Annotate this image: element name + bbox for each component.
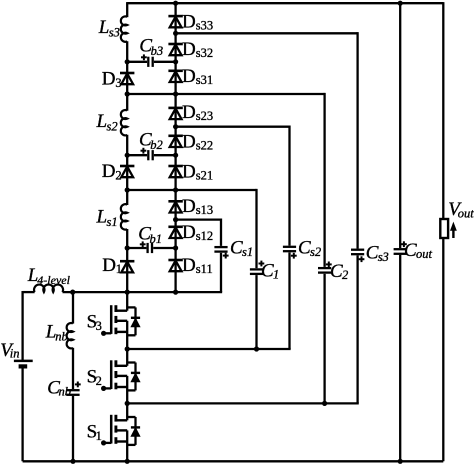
resistor Rload (output load)	[440, 219, 448, 238]
svg-text:nb: nb	[55, 330, 68, 344]
label C2	[330, 261, 348, 282]
label Cb2	[139, 129, 163, 152]
junction node Ds23-Ds22	[173, 124, 178, 129]
svg-text:s23: s23	[196, 109, 213, 123]
junction node Ds21 bottom	[173, 187, 178, 192]
capacitor C2	[317, 267, 332, 274]
polarity + of Cs2	[291, 253, 297, 259]
label Cb1	[138, 224, 162, 247]
svg-text:D: D	[182, 255, 196, 276]
svg-text:s1: s1	[107, 215, 118, 229]
svg-text:s12: s12	[196, 229, 213, 243]
svg-text:1: 1	[116, 262, 122, 276]
polarity + of Cb3	[141, 54, 147, 60]
wire Cb2 link	[127, 154, 175, 156]
label D2	[102, 161, 122, 183]
label D1	[102, 255, 122, 276]
wire S3 source row to Cs2 bottom	[127, 348, 290, 350]
junction node L4-level/Lnb	[70, 290, 75, 295]
svg-text:L: L	[96, 111, 108, 132]
svg-text:D: D	[182, 39, 196, 60]
junction node C1 bottom	[254, 346, 259, 351]
svg-text:1: 1	[96, 429, 102, 443]
junction node Ds11 bottom	[173, 290, 178, 295]
label Ds31	[182, 66, 213, 87]
label Cout	[404, 240, 433, 261]
polarity + of Cs1	[223, 253, 229, 259]
wire node Ds33/Ds32 to Cs3 top	[176, 32, 358, 403]
svg-text:s21: s21	[196, 169, 213, 183]
transistor S2 (MOSFET with body diode)	[101, 349, 140, 403]
diode Ds12	[168, 227, 182, 238]
junction node Ds31 bottom	[173, 91, 178, 96]
wire bottom return rail	[23, 460, 444, 462]
svg-text:2: 2	[115, 169, 121, 183]
junction node Cb2 right	[173, 153, 178, 158]
wire main node row: L4-level through buses to Cs1 bottom	[23, 291, 223, 293]
label Ds21	[182, 162, 213, 183]
capacitor Cb1	[146, 242, 153, 254]
wire Lnb-to-Cnb	[72, 348, 74, 391]
inductor Ls1	[121, 204, 127, 229]
junction node Cb1 left	[125, 245, 130, 250]
junction node D1/S3 drain	[125, 290, 130, 295]
svg-text:D: D	[102, 255, 116, 276]
label Cnb	[47, 377, 71, 398]
diode Ds33	[168, 16, 182, 27]
junction node D2 bottom	[125, 187, 130, 192]
label L4-level	[27, 265, 71, 287]
diode Ds13	[168, 201, 182, 212]
svg-text:L: L	[98, 17, 110, 38]
svg-text:b1: b1	[150, 232, 163, 246]
diode Ds23	[168, 108, 182, 119]
wire left bus Ls2-to-Ls1 segment (through Cb2 node and D2)	[126, 135, 128, 205]
junction node Cout bottom	[398, 459, 403, 464]
polarity + of C2	[326, 262, 332, 268]
capacitor Cout	[393, 248, 408, 255]
wire Cout branch	[399, 3, 401, 461]
arrow Vout direction	[450, 222, 457, 238]
diode Ds22	[168, 136, 182, 147]
svg-text:s13: s13	[196, 203, 213, 217]
svg-text:2: 2	[342, 268, 348, 282]
svg-text:D: D	[182, 131, 196, 152]
label Ds23	[182, 102, 213, 123]
junction node S1 source	[125, 459, 130, 464]
label Ds11	[182, 255, 213, 276]
inductor Ls2	[121, 110, 127, 135]
junction node top/Cout	[398, 1, 403, 6]
inductor Ls3	[121, 16, 127, 41]
label Cb3	[139, 36, 163, 59]
svg-text:in: in	[10, 347, 20, 361]
junction node S3 source	[125, 346, 130, 351]
wire Cnb-to-bottom	[72, 395, 74, 462]
svg-text:3: 3	[96, 319, 102, 333]
svg-text:4-level: 4-level	[37, 273, 70, 287]
svg-text:D: D	[182, 102, 196, 123]
svg-text:D: D	[102, 68, 116, 89]
capacitor C1	[249, 268, 264, 275]
inductor Lnb	[67, 323, 73, 348]
wire S2 source row to Cs3 bottom	[127, 402, 359, 404]
wire Lnb branch upper	[72, 292, 74, 324]
label Ds32	[182, 39, 213, 60]
transistor S1 (MOSFET with body diode)	[101, 403, 140, 461]
wire node D3/Ds31 bottom rail to C2 top	[127, 93, 324, 404]
svg-text:s11: s11	[196, 262, 213, 276]
label Vout	[448, 199, 474, 221]
capacitor Cnb	[65, 389, 80, 396]
svg-text:out: out	[416, 247, 433, 261]
wire top rail (Vout+ bus)	[127, 2, 443, 4]
svg-text:s3: s3	[109, 26, 120, 40]
svg-text:1: 1	[273, 268, 279, 282]
junction node Cb3 left	[125, 59, 130, 64]
svg-text:D: D	[182, 11, 196, 32]
wire Cb3 link	[127, 61, 175, 63]
capacitor Cs2	[282, 246, 297, 253]
label S3	[87, 311, 102, 333]
polarity + of Cs3	[359, 256, 365, 262]
transistor S3 (MOSFET with body diode)	[101, 292, 140, 349]
label Ds13	[182, 196, 213, 217]
svg-text:2: 2	[96, 374, 102, 388]
polarity + of C1	[259, 261, 265, 267]
wire left input rail upper	[21, 291, 23, 361]
junction node S2 source	[125, 401, 130, 406]
label Ls1	[96, 207, 118, 230]
wire left input rail lower	[21, 366, 23, 461]
label D3	[102, 68, 122, 90]
label Cs2	[298, 237, 321, 258]
junction node Cb3 right	[173, 59, 178, 64]
svg-text:b2: b2	[150, 138, 163, 152]
capacitor Cb2	[147, 149, 154, 161]
capacitor Cb3	[147, 56, 154, 68]
svg-text:s3: s3	[378, 250, 389, 264]
svg-text:s2: s2	[310, 245, 321, 259]
svg-text:D: D	[182, 222, 196, 243]
svg-text:s1: s1	[242, 245, 253, 259]
svg-text:s32: s32	[196, 46, 213, 60]
label Ds22	[182, 131, 213, 152]
capacitor Cs1	[213, 246, 228, 253]
svg-text:s2: s2	[107, 120, 118, 134]
wire node Ds23/Ds22 to Cs2 top	[176, 126, 290, 349]
label Ls2	[96, 111, 118, 134]
diode Ds11	[168, 260, 182, 271]
wire left bus Ls3-to-Ls2 segment (through Cb3 node and D3)	[126, 41, 128, 111]
wire Cb1 link	[127, 247, 175, 249]
diode Ds32	[168, 44, 182, 55]
svg-text:D: D	[182, 196, 196, 217]
label Ds33	[182, 11, 213, 32]
label Cs3	[366, 243, 389, 265]
label S2	[87, 366, 102, 388]
label C1	[261, 261, 279, 282]
svg-text:out: out	[458, 207, 474, 221]
label S1	[87, 421, 102, 443]
junction node C2 bottom	[322, 401, 327, 406]
label Ls3	[98, 17, 120, 40]
wire left bus Ls1-to-node segment (through Cb1 node and D1)	[126, 229, 128, 292]
inductor L4-level	[34, 285, 63, 293]
wire node D2/Ds21 bottom rail to C1 top	[127, 189, 256, 349]
svg-text:s33: s33	[196, 18, 213, 32]
junction node top/Ds bus	[173, 1, 178, 6]
junction node Ds33-Ds32	[173, 31, 178, 36]
capacitor Cs3	[350, 249, 365, 256]
polarity + of Cout	[401, 241, 407, 247]
svg-text:D: D	[182, 162, 196, 183]
wire left boost bus top segment	[126, 2, 128, 17]
svg-text:D: D	[182, 66, 196, 87]
polarity + of Cnb	[75, 382, 81, 388]
diode Ds21	[168, 166, 182, 177]
junction node Cb1 right	[173, 245, 178, 250]
polarity + of Cb2	[141, 148, 147, 154]
svg-text:nb: nb	[59, 384, 72, 398]
junction node Cnb bottom	[70, 459, 75, 464]
diode D2	[120, 166, 134, 177]
junction node Ds13-Ds12	[173, 217, 178, 222]
svg-text:s31: s31	[196, 73, 213, 87]
label Vin	[0, 340, 19, 361]
diode D1	[120, 261, 134, 272]
diode D3	[120, 73, 134, 84]
battery Vin source	[14, 361, 33, 367]
wire node Ds13/Ds12 to Cs1 top	[176, 218, 221, 292]
svg-text:L: L	[96, 207, 108, 228]
junction node Cb2 left	[125, 153, 130, 158]
polarity + of Cb1	[140, 241, 146, 247]
label Lnb	[45, 322, 68, 344]
svg-text:3: 3	[115, 76, 121, 90]
svg-text:s22: s22	[196, 138, 213, 152]
wire Ds diode bus	[174, 3, 176, 292]
svg-text:D: D	[102, 161, 116, 182]
junction node D3 bottom	[125, 91, 130, 96]
wire output right rail	[442, 2, 444, 461]
svg-text:b3: b3	[151, 44, 164, 58]
label Cs1	[230, 237, 253, 258]
label Ds12	[182, 222, 213, 243]
diode Ds31	[168, 71, 182, 82]
